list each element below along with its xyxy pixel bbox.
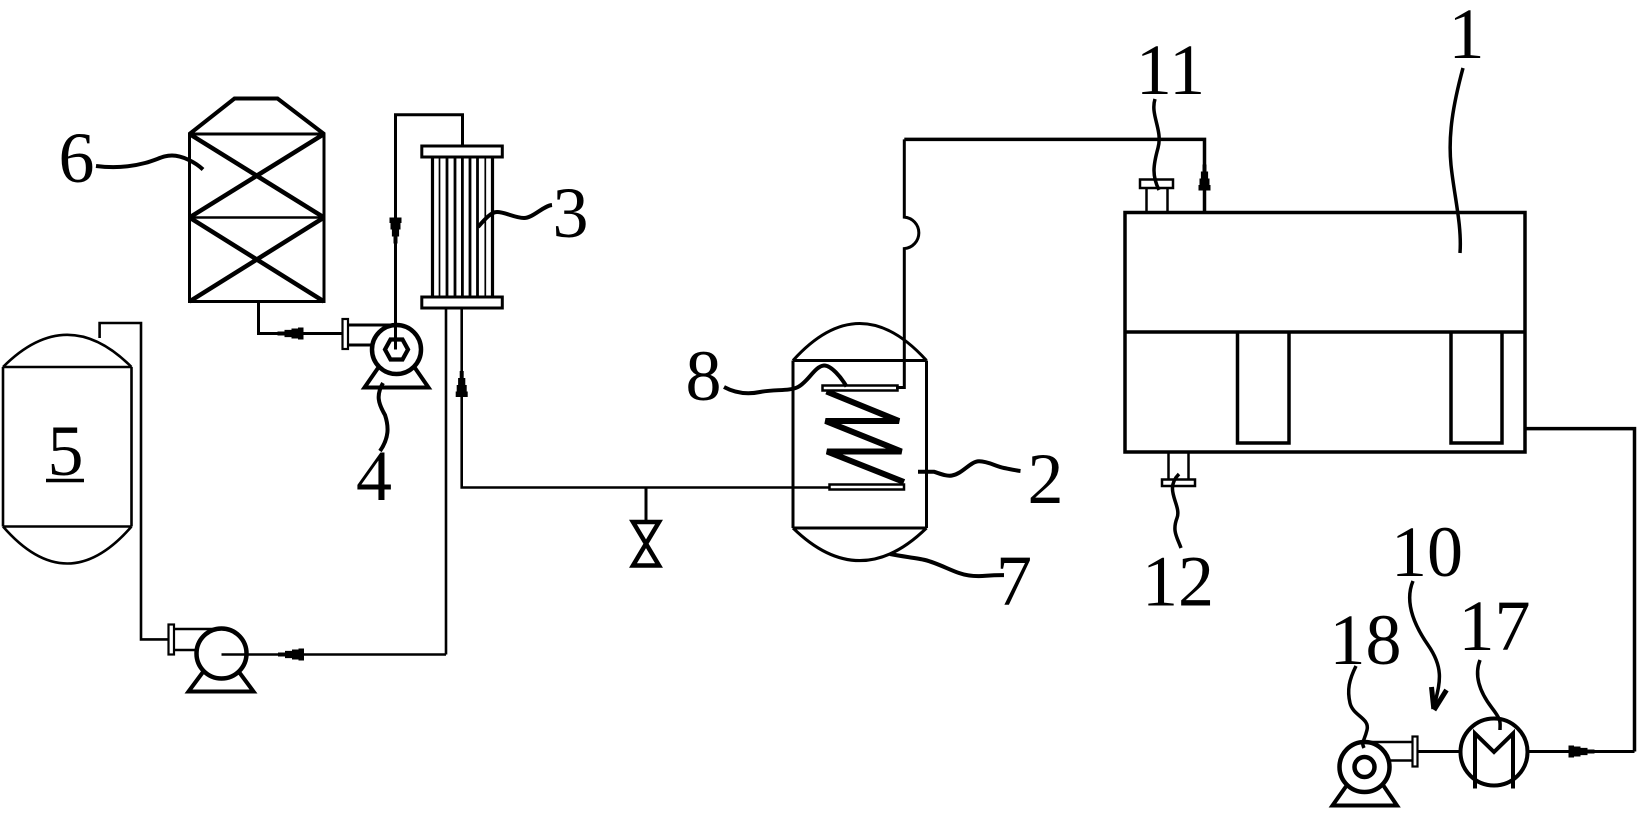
pump 18 inner circle: [1355, 757, 1375, 777]
wire left pump discharge to HX3: [222, 653, 447, 656]
wire HX3 bottom-right pipe down to coil line: [462, 308, 830, 488]
leader 2: [918, 461, 1021, 475]
pump P4 base: [365, 368, 429, 388]
wire HX17 outlet: [1528, 750, 1635, 753]
nozzle 12 legs: [1169, 452, 1189, 480]
heat exchanger 17 M internals: [1475, 734, 1513, 789]
leader 7: [890, 554, 1004, 576]
valve stem: [645, 488, 648, 523]
wire vessel1 outlet to riser: [1525, 429, 1635, 752]
leader 8: [724, 365, 847, 393]
svg-text:10: 10: [1391, 512, 1463, 592]
nozzle 12 cap: [1162, 480, 1195, 487]
pump P4 flange: [343, 319, 349, 349]
vessel 2 shell: [793, 324, 927, 561]
pump P4 body: [372, 325, 421, 374]
left pump nozzle: [174, 629, 222, 650]
leader 10: [1410, 581, 1440, 703]
leader 10 open arrowhead: [1432, 687, 1434, 709]
svg-text:2: 2: [1028, 439, 1064, 519]
leader 11: [1154, 99, 1159, 190]
wire HX3 top to pump4: [396, 115, 463, 350]
coil 8 top plate: [823, 386, 898, 391]
pump P4 inner hexagon: [385, 340, 408, 360]
wire overhead line to vessel 1: [904, 139, 1204, 212]
vessel 5 shell: [3, 335, 132, 564]
vessel 1 internal baffle left: [1238, 333, 1290, 444]
svg-text:3: 3: [553, 173, 589, 253]
label 5 underline: [46, 479, 84, 483]
arrow down into pump4: [390, 218, 402, 244]
coil bottom plate: [830, 485, 905, 490]
leader 1: [1450, 68, 1463, 253]
coil 8 zigzag: [826, 392, 905, 483]
arrow right on HX17 outlet: [1569, 746, 1595, 758]
arrow up into HX3: [456, 371, 468, 397]
nozzle 11 legs: [1147, 188, 1168, 213]
svg-text:1: 1: [1449, 0, 1485, 74]
left pump body: [197, 629, 247, 679]
nozzle 11 cap: [1140, 180, 1173, 189]
packing X bottom section: [190, 218, 325, 302]
wire pump18 to HX17: [1418, 750, 1461, 753]
wire vessel2 top pipe with hop: [896, 139, 919, 387]
svg-text:11: 11: [1136, 30, 1205, 110]
heat exchanger 17 body: [1461, 719, 1528, 786]
packed column 6 body: [190, 99, 325, 302]
heat exchanger 3 bottom flange: [422, 297, 503, 308]
wire column6 outlet to pump4: [259, 302, 343, 334]
svg-text:4: 4: [356, 436, 392, 516]
left pump base: [189, 672, 254, 692]
pump P4 nozzle: [348, 325, 397, 345]
svg-text:18: 18: [1330, 600, 1402, 680]
heat exchanger 3 shell: [433, 157, 493, 297]
arrow up into vessel1 inlet: [1199, 165, 1211, 191]
arrow left on column6 outlet: [278, 328, 304, 340]
wire HX3 bottom-left pipe down: [445, 308, 448, 655]
pump 18 base: [1333, 785, 1398, 806]
svg-text:8: 8: [686, 336, 722, 416]
svg-text:12: 12: [1142, 542, 1214, 622]
leader 6: [96, 156, 203, 170]
vessel 1 internal baffle right: [1451, 333, 1502, 444]
leader 18: [1349, 666, 1368, 748]
leader 17: [1478, 660, 1501, 730]
leader 3: [478, 205, 552, 227]
packing X top section: [190, 134, 325, 218]
pump 18 body: [1340, 742, 1390, 792]
valve: [633, 522, 659, 566]
leader 4: [379, 383, 388, 451]
svg-text:6: 6: [59, 118, 95, 198]
svg-text:17: 17: [1459, 586, 1531, 666]
leader 12: [1172, 474, 1181, 548]
vessel 1 shell: [1125, 213, 1525, 453]
pump 18 nozzle: [1365, 742, 1413, 761]
left pump flange: [169, 625, 175, 655]
heat exchanger 3 tubes: [440, 157, 486, 297]
heat exchanger 3 top flange: [422, 146, 503, 157]
wire vessel5 to left pump suction: [100, 323, 169, 639]
arrow left on discharge: [278, 649, 304, 661]
pump 18 flange: [1413, 737, 1418, 767]
svg-text:7: 7: [996, 541, 1032, 621]
